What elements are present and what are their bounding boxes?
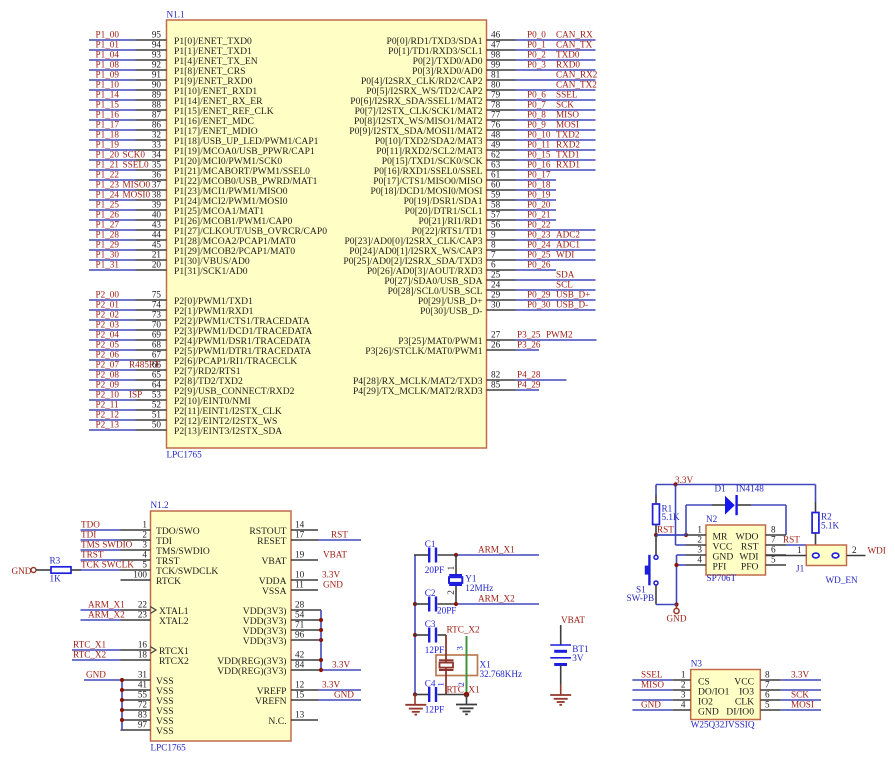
wire net P1_19 — [89, 149, 136, 151]
svg-text:SSEL0: SSEL0 — [123, 160, 149, 170]
svg-text:42: 42 — [295, 650, 305, 660]
svg-text:2: 2 — [852, 545, 857, 555]
wire C4 to node RTC_X1 — [438, 694, 467, 696]
svg-text:DI/IO0: DI/IO0 — [726, 706, 754, 717]
svg-text:3: 3 — [697, 545, 702, 555]
wire net P1_09 — [89, 79, 136, 81]
power port GND (below S1) — [676, 605, 678, 609]
svg-text:53: 53 — [152, 390, 162, 400]
svg-text:72: 72 — [138, 700, 148, 710]
svg-text:46: 46 — [491, 30, 501, 40]
svg-text:63: 63 — [491, 160, 501, 170]
N1.2 pin 55 (VSS) stub — [121, 699, 151, 701]
wire net P0_6 — [516, 99, 596, 101]
svg-text:ADC1: ADC1 — [556, 240, 580, 250]
svg-text:34: 34 — [152, 150, 162, 160]
svg-text:CAN_RX: CAN_RX — [556, 30, 593, 40]
svg-text:1: 1 — [697, 525, 702, 535]
svg-text:PFO: PFO — [741, 561, 759, 572]
wire S1 bottom to GND node — [655, 585, 657, 605]
resistor R1 5.1K — [653, 504, 660, 525]
svg-text:VSSA: VSSA — [262, 586, 287, 597]
ground (BT1) — [550, 695, 571, 705]
J1 pad 1 — [812, 553, 819, 558]
junction VSS at y=720 — [120, 718, 124, 722]
svg-text:49: 49 — [491, 140, 501, 150]
wire net P2_04 — [89, 339, 136, 341]
svg-text:P0_0: P0_0 — [527, 30, 546, 40]
svg-text:91: 91 — [152, 70, 162, 80]
junction VSS at y=700 — [120, 698, 124, 702]
svg-text:51: 51 — [152, 410, 162, 420]
svg-text:16: 16 — [138, 640, 148, 650]
wire GND pin3 — [677, 554, 687, 556]
svg-text:5.1K: 5.1K — [662, 512, 680, 522]
svg-text:USB_D-: USB_D- — [556, 300, 588, 310]
crystal X1 32.768KHz box — [436, 655, 478, 676]
svg-text:P0_17: P0_17 — [527, 170, 551, 180]
svg-text:77: 77 — [491, 110, 501, 120]
wire net (unlabeled) right row — [781, 689, 821, 691]
wire J1 pin2 to WDI label — [847, 555, 866, 557]
wire net P3_25 — [516, 339, 597, 341]
N1.2 pin 42 (VDD(REG)(3V3)) stub — [291, 659, 321, 661]
wire net P1_14 — [89, 99, 136, 101]
N1.1 pin 6 (P0[26]/AD0[3]/AOUT/RXD3) stub — [487, 269, 516, 271]
svg-text:43: 43 — [152, 220, 162, 230]
wire net CAN_TX2 — [516, 89, 596, 91]
wire net TDO — [81, 529, 121, 531]
wire net P0_16 — [516, 169, 596, 171]
svg-text:37: 37 — [152, 180, 162, 190]
svg-text:P0_7: P0_7 — [527, 100, 546, 110]
wire net CAN_RX2 — [516, 79, 596, 81]
svg-text:P1_28: P1_28 — [96, 230, 120, 240]
N3 pin 3 (IO2) stub — [673, 699, 691, 701]
svg-text:P2_03: P2_03 — [96, 320, 120, 330]
svg-text:P0_1: P0_1 — [527, 40, 546, 50]
svg-text:CAN_TX2: CAN_TX2 — [556, 80, 597, 90]
wire net P0_3 — [516, 69, 596, 71]
resistor R3 1K — [51, 567, 71, 573]
svg-text:9: 9 — [491, 230, 496, 240]
svg-text:2: 2 — [142, 530, 147, 540]
svg-text:4: 4 — [142, 550, 147, 560]
svg-text:P0_19: P0_19 — [527, 190, 551, 200]
svg-text:P1_15: P1_15 — [96, 100, 120, 110]
svg-text:45: 45 — [152, 240, 162, 250]
wire net P0_29 — [516, 299, 596, 301]
N1.2 pin 14 (RSTOUT) stub — [291, 529, 318, 531]
svg-text:MISO: MISO — [556, 110, 579, 120]
wire PFI pin4 — [677, 564, 687, 566]
junction 3.3V/VCC — [673, 482, 677, 486]
svg-text:6: 6 — [771, 545, 776, 555]
wire GND vertical joining VSS pins — [121, 680, 123, 730]
svg-text:67: 67 — [152, 350, 162, 360]
svg-text:52: 52 — [152, 400, 162, 410]
N1.1 pin 29 (P0[29]/USB_D+) stub — [487, 299, 516, 301]
svg-text:SP706T: SP706T — [707, 573, 737, 583]
svg-text:WDI: WDI — [868, 546, 886, 556]
svg-text:LPC1765: LPC1765 — [167, 450, 203, 460]
N1.1 pin 74 (P2[1]/PWM1/RXD1) stub — [136, 309, 167, 311]
svg-text:TRST: TRST — [81, 550, 104, 560]
svg-text:96: 96 — [295, 630, 305, 640]
junction rail/C4 — [413, 692, 417, 696]
wire net SSEL left row — [632, 679, 673, 681]
svg-text:58: 58 — [491, 200, 501, 210]
svg-text:69: 69 — [152, 330, 162, 340]
wire C3 to X1 — [438, 634, 447, 636]
svg-text:31: 31 — [138, 670, 148, 680]
N1.2 pin 28 (VDD(3V3)) stub — [291, 609, 321, 611]
N1.1 pin 33 (P1[19]/MCOA0/USB_PPWR/CAP1) stub — [136, 149, 167, 151]
N1.1 pin 98 (P0[2]/TXD0/AD0) stub — [487, 59, 516, 61]
junction VSS at y=710 — [120, 708, 124, 712]
svg-text:RTCX2: RTCX2 — [159, 656, 189, 667]
wire net ARM_X2 — [456, 603, 539, 605]
svg-text:20: 20 — [152, 260, 162, 270]
svg-text:P2_13: P2_13 — [96, 420, 120, 430]
svg-text:IN4148: IN4148 — [736, 484, 764, 494]
svg-text:P1_18: P1_18 — [96, 130, 120, 140]
N1.2 pin 3 (TMS/SWDIO) stub — [121, 549, 151, 551]
wire net P3_26 — [516, 349, 540, 351]
N1.2 pin 84 (VDD(REG)(3V3)) stub — [291, 669, 321, 671]
wire D1 anode down to RST — [685, 505, 687, 535]
svg-text:P1_17: P1_17 — [96, 120, 120, 130]
wire net P2_05 — [89, 349, 136, 351]
svg-text:100: 100 — [133, 570, 147, 580]
svg-text:P1_14: P1_14 — [96, 90, 120, 100]
svg-text:1: 1 — [142, 520, 147, 530]
svg-text:3: 3 — [681, 690, 686, 700]
IC N1.2 LPC1765 body — [151, 511, 292, 741]
svg-text:1K: 1K — [50, 574, 62, 584]
wire VCC up to 3.3V — [676, 544, 687, 546]
wire rail to C2 — [414, 603, 428, 605]
N1.1 pin 8 (P0[24]/AD0[1]/I2SRX_WS/CAP3) stub — [487, 249, 516, 251]
N2 pin 7 (RST) stub — [766, 544, 787, 546]
wire R2 down to J1 — [815, 533, 817, 545]
svg-text:65: 65 — [152, 370, 162, 380]
svg-text:P3_26: P3_26 — [517, 340, 541, 350]
junction RST/D1 — [684, 533, 688, 537]
N1.1 pin 36 (P1[22]/MCOB0/USB_PWRD/MAT1) stub — [136, 179, 167, 181]
wire net P2_06 — [89, 359, 136, 361]
svg-text:28: 28 — [295, 600, 305, 610]
svg-text:3.3V: 3.3V — [791, 670, 809, 680]
wire net P1_15 — [89, 109, 136, 111]
svg-text:35: 35 — [152, 160, 162, 170]
svg-text:P0_25: P0_25 — [527, 250, 551, 260]
junction VDD at y=620 — [319, 618, 323, 622]
N1.1 pin 93 (P1[4]/ENET_TX_EN) stub — [136, 59, 167, 61]
N1.1 pin 43 (P1[27]/CLKOUT/USB_OVRCR/CAP0) stub — [136, 229, 167, 231]
wire net P0_25 — [516, 259, 596, 261]
N1.1 pin 61 (P0[17]/CTS1/MISO0/MISO) stub — [487, 179, 516, 181]
wire net P1_29 — [89, 249, 136, 251]
svg-text:7: 7 — [491, 250, 496, 260]
wire capacitor ground rail (vertical) — [414, 555, 416, 695]
svg-text:5: 5 — [142, 560, 147, 570]
wire net P2_09 — [89, 389, 136, 391]
N1.2 pin 15 (VREFN) stub — [291, 699, 318, 701]
N1.1 pin 89 (P1[14]/ENET_RX_ER) stub — [136, 99, 167, 101]
svg-text:RTC_X2: RTC_X2 — [447, 625, 481, 635]
wire Y1 pin 2 — [455, 586, 457, 604]
wire net P1_22 — [89, 179, 136, 181]
wire net P0_10 — [516, 139, 596, 141]
N1.1 pin 56 (P0[22]/RTS1/TD1) stub — [487, 229, 516, 231]
svg-text:J1: J1 — [796, 564, 805, 574]
N1.2 pin 12 (VREFP) stub — [291, 689, 318, 691]
svg-text:11: 11 — [295, 580, 304, 590]
svg-text:VDD(REG)(3V3): VDD(REG)(3V3) — [217, 666, 286, 677]
svg-text:82: 82 — [491, 370, 501, 380]
svg-text:75: 75 — [152, 290, 162, 300]
N1.1 pin 87 (P1[16]/ENET_MDC) stub — [136, 119, 167, 121]
N1.2 pin 31 (VSS) stub — [121, 679, 151, 681]
wire net P1_26 — [89, 219, 136, 221]
N1.1 pin 48 (P0[10]/TXD2/SDA2/MAT3) stub — [487, 139, 516, 141]
svg-text:GND: GND — [86, 670, 106, 680]
svg-text:79: 79 — [491, 90, 501, 100]
N1.1 pin 65 (P2[8]/TD2/TXD2) stub — [136, 379, 167, 381]
wire net P0_7 — [516, 109, 596, 111]
svg-text:MOSI: MOSI — [556, 120, 579, 130]
wire net P0_1 — [516, 49, 596, 51]
svg-text:P1_21: P1_21 — [96, 160, 120, 170]
N1.1 pin 37 (P1[23]/MCI1/PWM1/MISO0) stub — [136, 189, 167, 191]
svg-text:3.3V: 3.3V — [332, 660, 350, 670]
svg-text:P0_3: P0_3 — [527, 60, 546, 70]
svg-text:41: 41 — [138, 680, 148, 690]
wire C2 to node ARM_X2 — [438, 603, 457, 605]
svg-text:7: 7 — [765, 680, 770, 690]
crystal Y1 12MHz — [449, 574, 462, 586]
svg-text:20PF: 20PF — [425, 565, 444, 575]
wire net P1_27 — [89, 229, 136, 231]
N1.2 pin 97 (VSS) stub — [121, 729, 151, 731]
junction node ARM_X2 — [454, 602, 458, 606]
svg-text:2: 2 — [697, 535, 702, 545]
wire net P2_07 — [89, 369, 136, 371]
svg-text:P2_00: P2_00 — [96, 290, 120, 300]
N1.1 pin 45 (P1[29]/MCOB2/PCAP1/MAT0) stub — [136, 249, 167, 251]
N1.1 pin 76 (P0[9]/I2STX_SDA/MOSI1/MAT2) stub — [487, 129, 516, 131]
wire net P1_30 — [89, 259, 136, 261]
wire net P0_26 — [516, 269, 557, 271]
wire net P4_28 — [516, 379, 567, 381]
wire net P0_0 — [516, 39, 596, 41]
wire net P2_03 — [89, 329, 136, 331]
N1.1 pin 92 (P1[8]/ENET_CRS) stub — [136, 69, 167, 71]
svg-text:66: 66 — [152, 360, 162, 370]
svg-text:WD_EN: WD_EN — [826, 575, 859, 585]
svg-text:61: 61 — [491, 170, 501, 180]
IC N1.1 LPC1765 (main MCU) body — [167, 20, 487, 448]
svg-text:P2_05: P2_05 — [96, 340, 120, 350]
svg-text:TMS SWDIO: TMS SWDIO — [81, 540, 133, 550]
N2 pin 6 (WDI) stub — [766, 554, 787, 556]
svg-text:ARM_X1: ARM_X1 — [88, 600, 125, 610]
svg-text:22: 22 — [138, 600, 148, 610]
svg-text:P0_18: P0_18 — [527, 180, 551, 190]
svg-text:VBAT: VBAT — [261, 556, 286, 567]
wire net P1_23 — [89, 189, 136, 191]
N1.1 pin 9 (P0[23]/AD0[0]/I2SRX_CLK/CAP3) stub — [487, 239, 516, 241]
svg-text:76: 76 — [491, 120, 501, 130]
svg-text:P1_23: P1_23 — [96, 180, 120, 190]
svg-text:RST: RST — [657, 525, 674, 535]
wire net P0_18 — [516, 189, 557, 191]
IC N3 W25Q32JVSSIQ body — [691, 670, 761, 720]
wire net P2_11 — [89, 409, 136, 411]
wire rail to R1 — [655, 485, 657, 496]
svg-text:27: 27 — [491, 330, 501, 340]
N2 pin 3 (GND) stub — [686, 554, 706, 556]
N1.2 pin 72 (VSS) stub — [121, 709, 151, 711]
N1.1 pin 67 (P2[6]/PCAP1/RI1/TRACECLK) stub — [136, 359, 167, 361]
svg-text:57: 57 — [491, 210, 501, 220]
svg-text:87: 87 — [152, 110, 162, 120]
svg-text:60: 60 — [491, 180, 501, 190]
N1.1 pin 88 (P1[15]/ENET_REF_CLK) stub — [136, 109, 167, 111]
capacitor C4 12PF — [428, 687, 437, 702]
wire net SDA — [516, 279, 596, 281]
N1.1 pin 7 (P0[25]/AD0[2]/I2SRX_SDA/TXD3) stub — [487, 259, 516, 261]
wire R3 to TCK SWCLK — [71, 569, 81, 571]
N1.1 pin 95 (P1[0]/ENET_TXD0) stub — [136, 39, 167, 41]
svg-text:RTC_X2: RTC_X2 — [73, 650, 107, 660]
wire net P0_2 — [516, 59, 596, 61]
wire net P4_29 — [516, 389, 540, 391]
battery BT1 3V — [550, 645, 571, 665]
wire net P1_21 — [89, 169, 136, 171]
junction VDD at y=660 — [319, 658, 323, 662]
wire rail to C3 — [414, 634, 428, 636]
svg-text:4: 4 — [681, 700, 686, 710]
svg-text:99: 99 — [491, 60, 501, 70]
svg-text:26: 26 — [491, 340, 501, 350]
svg-text:P2_09: P2_09 — [96, 380, 120, 390]
wire net P1_20 — [89, 159, 136, 161]
N1.1 pin 79 (P0[6]/I2SRX_SDA/SSEL1/MAT2) stub — [487, 99, 516, 101]
wire net P0_20 — [516, 209, 557, 211]
svg-text:48: 48 — [491, 130, 501, 140]
N1.1 pin 58 (P0[20]/DTR1/SCL1) stub — [487, 209, 516, 211]
svg-text:P2_01: P2_01 — [96, 300, 120, 310]
svg-text:SCK0: SCK0 — [123, 150, 146, 160]
svg-text:8: 8 — [771, 525, 776, 535]
svg-text:RXD0: RXD0 — [556, 60, 580, 70]
N1.1 pin 57 (P0[21]/RI1/RD1) stub — [487, 219, 516, 221]
svg-text:WDI: WDI — [556, 250, 574, 260]
wire pin3/pin4 down to GND — [676, 555, 678, 605]
svg-text:N1.2: N1.2 — [151, 500, 170, 510]
wire net P2_10 — [89, 399, 136, 401]
wire net P2_01 — [89, 309, 136, 311]
svg-text:GND: GND — [667, 614, 687, 624]
svg-text:RTC_X1: RTC_X1 — [447, 684, 481, 694]
N1.1 pin 69 (P2[4]/PWM1/DSR1/TRACEDATA) stub — [136, 339, 167, 341]
N1.1 pin 40 (P1[26]/MCOB1/PWM1/CAP0) stub — [136, 219, 167, 221]
svg-text:P4_29: P4_29 — [517, 380, 541, 390]
capacitor C1 20PF — [428, 548, 437, 563]
N1.2 pin 18 (RTCX2) stub — [121, 659, 151, 661]
capacitor C3 12PF — [428, 628, 437, 643]
N1.1 pin 91 (P1[9]/ENET_RXD0) stub — [136, 79, 167, 81]
wire net MISO left row — [632, 689, 673, 691]
svg-text:P0_10: P0_10 — [527, 130, 551, 140]
svg-text:3: 3 — [142, 540, 147, 550]
wire net P0_8 — [516, 119, 596, 121]
N1.1 pin 21 (P1[30]/VBUS/AD0) stub — [136, 259, 167, 261]
wire net RTC_X2 — [72, 659, 121, 661]
wire R1 to RST node — [655, 525, 657, 536]
svg-text:33: 33 — [152, 140, 162, 150]
svg-text:SSEL: SSEL — [641, 670, 663, 680]
N1.2 pin 2 (TDI) stub — [121, 539, 151, 541]
svg-text:6: 6 — [491, 260, 496, 270]
N3 pin 4 (GND) stub — [673, 709, 691, 711]
svg-text:21: 21 — [152, 250, 162, 260]
svg-text:P2_07: P2_07 — [96, 360, 120, 370]
svg-text:VBAT: VBAT — [561, 615, 585, 625]
svg-text:P0_21: P0_21 — [527, 210, 551, 220]
svg-text:32.768KHz: 32.768KHz — [480, 669, 523, 679]
wire MR to RST node — [656, 534, 686, 536]
svg-text:W25Q32JVSSIQ: W25Q32JVSSIQ — [691, 720, 755, 730]
N2 pin 4 (PFI) stub — [686, 564, 706, 566]
svg-text:P1_20: P1_20 — [96, 150, 120, 160]
svg-text:GND: GND — [334, 690, 354, 700]
svg-text:98: 98 — [491, 50, 501, 60]
svg-text:RXD1: RXD1 — [556, 160, 580, 170]
N1.2 pin 100 (RTCK) stub — [121, 579, 151, 581]
wire 3.3V rail — [656, 484, 816, 486]
svg-text:40: 40 — [152, 210, 162, 220]
svg-text:2: 2 — [681, 680, 686, 690]
wire net ARM_X2 — [81, 619, 121, 621]
wire WDI pin6 to J1 pin1 — [766, 555, 807, 557]
svg-text:P0_26: P0_26 — [527, 260, 551, 270]
input arrow on RTCX1 — [151, 647, 157, 654]
svg-text:P0_15: P0_15 — [527, 150, 551, 160]
N1.2 pin 22 (XTAL1) stub — [121, 609, 151, 611]
N1.1 pin 20 (P1[31]/SCK1/AD0) stub — [136, 269, 167, 271]
N1.1 pin 30 (P0[30]/USB_D-) stub — [487, 309, 516, 311]
svg-text:7: 7 — [771, 535, 776, 545]
svg-text:12PF: 12PF — [425, 645, 444, 655]
N1.1 pin 38 (P1[24]/MCI2/PWM1/MOSI0) stub — [136, 199, 167, 201]
svg-text:P0_9: P0_9 — [527, 120, 546, 130]
svg-text:71: 71 — [295, 620, 305, 630]
svg-text:5.1K: 5.1K — [821, 521, 839, 531]
svg-text:3.3V: 3.3V — [675, 475, 693, 485]
N1.2 pin 96 (VDD(3V3)) stub — [291, 639, 321, 641]
svg-text:TCK SWCLK: TCK SWCLK — [81, 560, 134, 570]
svg-text:64: 64 — [152, 380, 162, 390]
svg-text:P1_10: P1_10 — [96, 80, 120, 90]
wire net TCK SWCLK — [81, 569, 121, 571]
svg-text:CAN_RX2: CAN_RX2 — [556, 70, 598, 80]
svg-text:VBAT: VBAT — [323, 550, 347, 560]
svg-text:19: 19 — [295, 550, 305, 560]
N3 pin 2 (DO/IO1) stub — [673, 689, 691, 691]
